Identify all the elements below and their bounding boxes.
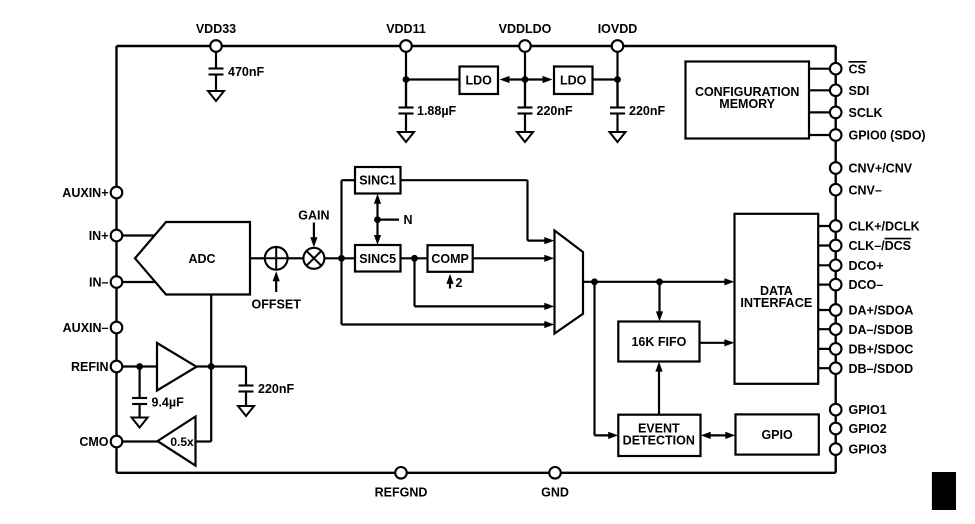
- svg-text:DA–/SDOB: DA–/SDOB: [849, 323, 914, 337]
- svg-text:SINC5: SINC5: [359, 252, 396, 266]
- svg-text:GPIO3: GPIO3: [849, 443, 887, 457]
- svg-text:REFGND: REFGND: [375, 486, 428, 500]
- svg-text:DETECTION: DETECTION: [623, 434, 695, 448]
- svg-text:LDO: LDO: [466, 74, 493, 88]
- svg-text:SINC1: SINC1: [359, 174, 396, 188]
- svg-text:CNV–: CNV–: [849, 183, 882, 197]
- svg-text:ADC: ADC: [188, 252, 215, 266]
- svg-text:IOVDD: IOVDD: [598, 22, 638, 36]
- svg-text:VDDLDO: VDDLDO: [499, 22, 552, 36]
- svg-text:GPIO1: GPIO1: [849, 403, 887, 417]
- svg-text:IN+: IN+: [89, 229, 109, 243]
- svg-text:GND: GND: [541, 486, 569, 500]
- svg-text:16K FIFO: 16K FIFO: [631, 335, 686, 349]
- svg-text:INTERFACE: INTERFACE: [740, 296, 812, 310]
- svg-text:2: 2: [456, 276, 463, 290]
- svg-text:GPIO: GPIO: [761, 428, 793, 442]
- svg-text:GAIN: GAIN: [298, 209, 329, 223]
- svg-text:GPIO0 (SDO): GPIO0 (SDO): [849, 129, 926, 143]
- svg-text:CLK–/DCS: CLK–/DCS: [849, 239, 912, 253]
- svg-text:DB–/SDOD: DB–/SDOD: [849, 362, 914, 376]
- svg-text:N: N: [404, 213, 413, 227]
- svg-text:SCLK: SCLK: [849, 106, 883, 120]
- svg-text:220nF: 220nF: [629, 104, 665, 118]
- svg-text:CMO: CMO: [79, 435, 108, 449]
- svg-text:0.5x: 0.5x: [170, 435, 194, 449]
- svg-text:GPIO2: GPIO2: [849, 422, 887, 436]
- svg-text:VDD11: VDD11: [386, 22, 426, 36]
- svg-text:VDD33: VDD33: [196, 22, 236, 36]
- svg-text:470nF: 470nF: [228, 65, 264, 79]
- svg-text:IN–: IN–: [89, 276, 109, 290]
- svg-text:DCO–: DCO–: [849, 278, 884, 292]
- svg-text:DA+/SDOA: DA+/SDOA: [849, 304, 914, 318]
- svg-text:CS: CS: [849, 62, 866, 76]
- svg-text:LDO: LDO: [560, 74, 587, 88]
- svg-text:AUXIN–: AUXIN–: [63, 321, 109, 335]
- svg-text:DCO+: DCO+: [849, 259, 884, 273]
- svg-text:DB+/SDOC: DB+/SDOC: [849, 343, 914, 357]
- svg-text:MEMORY: MEMORY: [719, 97, 775, 111]
- svg-text:SDI: SDI: [849, 84, 870, 98]
- svg-text:220nF: 220nF: [537, 104, 573, 118]
- svg-text:REFIN: REFIN: [71, 360, 109, 374]
- svg-text:CLK+/DCLK: CLK+/DCLK: [849, 220, 920, 234]
- svg-text:AUXIN+: AUXIN+: [62, 186, 108, 200]
- svg-text:CNV+/CNV: CNV+/CNV: [849, 162, 913, 176]
- svg-text:9.4µF: 9.4µF: [152, 396, 185, 410]
- svg-text:1.88µF: 1.88µF: [417, 104, 457, 118]
- svg-text:OFFSET: OFFSET: [252, 297, 302, 311]
- svg-text:220nF: 220nF: [258, 382, 294, 396]
- svg-text:COMP: COMP: [431, 252, 469, 266]
